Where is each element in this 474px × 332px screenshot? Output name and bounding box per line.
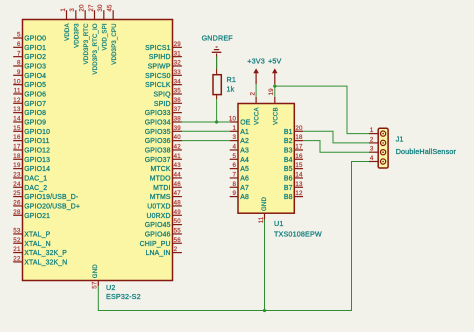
svg-text:XTAL_P: XTAL_P [24, 231, 50, 238]
svg-text:U2: U2 [106, 283, 116, 292]
U2 pin 34 SPICLK [145, 78, 182, 89]
svg-text:15: 15 [295, 162, 303, 169]
U1 pin 7 A6 [230, 172, 249, 183]
svg-text:GPIO9: GPIO9 [24, 119, 46, 126]
U2 pin 31 SPIHD [149, 50, 182, 61]
svg-text:B1: B1 [284, 129, 293, 136]
U1 pin 14 B6 [284, 172, 303, 183]
U2 pin 16 GPIO11 [13, 134, 49, 145]
svg-text:49: 49 [174, 209, 182, 216]
svg-text:26: 26 [13, 200, 21, 207]
svg-text:CHIP_PU: CHIP_PU [140, 241, 171, 248]
U2 pin 18 GPIO13 [13, 153, 50, 164]
svg-text:23: 23 [13, 172, 21, 179]
svg-text:20: 20 [295, 125, 303, 132]
svg-text:VDD3P3_RTC: VDD3P3_RTC [83, 23, 90, 64]
svg-text:27: 27 [88, 4, 95, 12]
U1 pin 16 B4 [284, 153, 303, 164]
svg-text:55: 55 [174, 228, 182, 235]
power symbol +3V3 [253, 68, 259, 84]
J1 pin 3 [369, 146, 386, 155]
svg-text:7: 7 [233, 172, 237, 179]
U1 pin 19 VCCB [268, 88, 279, 125]
U1 pin 13 B7 [284, 181, 303, 192]
svg-text:A7: A7 [240, 185, 249, 192]
U2 pin 44 MTDO [150, 172, 182, 183]
svg-text:52: 52 [13, 237, 21, 244]
svg-text:47: 47 [174, 190, 182, 197]
svg-text:4: 4 [370, 155, 374, 162]
svg-text:A2: A2 [240, 138, 249, 145]
svg-text:45: 45 [107, 4, 114, 12]
svg-text:12: 12 [13, 97, 21, 104]
svg-text:SPIQ: SPIQ [154, 91, 172, 98]
U2 pin 15 GPIO10 [13, 125, 50, 136]
U2 pin 37 GPIO33 [145, 106, 182, 117]
svg-text:18: 18 [13, 153, 21, 160]
svg-text:GPIO4: GPIO4 [24, 73, 46, 80]
svg-text:GPIO7: GPIO7 [24, 101, 46, 108]
svg-text:21: 21 [13, 246, 21, 253]
svg-text:OE: OE [240, 119, 251, 126]
svg-text:DAC_2: DAC_2 [24, 185, 47, 192]
J1 pin 2 [369, 136, 386, 145]
U2 pin 26 GPIO20/USB_D+ [13, 200, 80, 211]
svg-text:14: 14 [13, 116, 21, 123]
U2 pin 10 GPIO5 [13, 78, 46, 89]
svg-text:19: 19 [268, 88, 275, 96]
U2 pin 50 GPIO45 [145, 218, 182, 229]
svg-text:16: 16 [295, 153, 303, 160]
svg-text:GPIO10: GPIO10 [24, 129, 50, 136]
svg-text:17: 17 [13, 144, 21, 151]
svg-text:35: 35 [174, 88, 182, 95]
U1 pin 1 A1 [230, 125, 249, 136]
U1 pin 17 B3 [284, 144, 303, 155]
svg-text:GPIO2: GPIO2 [24, 54, 46, 61]
wire U2 GND to ground rail [98, 162, 369, 311]
power symbol GNDREF [212, 47, 222, 52]
junction +5V net [273, 85, 276, 88]
svg-text:GNDREF: GNDREF [202, 33, 234, 42]
svg-text:4: 4 [233, 144, 237, 151]
svg-text:MTMS: MTMS [150, 194, 171, 201]
svg-text:16: 16 [13, 134, 21, 141]
svg-text:15: 15 [13, 125, 21, 132]
svg-text:9: 9 [233, 190, 237, 197]
svg-text:29: 29 [174, 41, 182, 48]
svg-text:+5V: +5V [268, 56, 281, 65]
U1 pin 5 A4 [230, 153, 249, 164]
U2 pin 14 GPIO9 [13, 116, 46, 127]
svg-text:GPIO37: GPIO37 [145, 157, 171, 164]
svg-text:42: 42 [174, 144, 182, 151]
svg-text:MTCK: MTCK [150, 166, 170, 173]
U2 pin 43 MTCK [150, 162, 181, 173]
svg-text:8: 8 [17, 60, 21, 67]
svg-text:VDDA: VDDA [64, 23, 71, 41]
svg-text:2: 2 [250, 92, 257, 96]
U2 pin 7 GPIO2 [13, 50, 46, 61]
svg-text:GPIO6: GPIO6 [24, 91, 46, 98]
U2 pin 20 VDD3P3_RTC [79, 4, 90, 64]
svg-text:43: 43 [174, 162, 182, 169]
svg-text:A8: A8 [240, 194, 249, 201]
svg-text:GPIO11: GPIO11 [24, 138, 49, 145]
U2 pin 30 VDD_SPI [97, 4, 108, 50]
U1 pin 8 A7 [230, 181, 249, 192]
svg-text:12: 12 [295, 190, 303, 197]
U2 pin 36 SPID [154, 97, 182, 108]
svg-text:6: 6 [17, 41, 21, 48]
U2 pin 2 LNA_IN [146, 246, 182, 257]
wire B1 to J1 pin 2 [303, 131, 369, 143]
svg-text:41: 41 [174, 153, 182, 160]
svg-text:24: 24 [13, 181, 21, 188]
U2 pin 12 GPIO7 [13, 97, 46, 108]
svg-text:GND: GND [261, 197, 268, 211]
U2 pin 11 GPIO6 [13, 88, 46, 99]
U2 pin 3 VDD3P3 [69, 8, 80, 48]
svg-text:13: 13 [295, 181, 303, 188]
svg-text:13: 13 [13, 106, 21, 113]
wire +5V to J1 pin 1 [275, 86, 369, 134]
U1 pin 4 A3 [230, 144, 249, 155]
svg-text:XTAL_32K_P: XTAL_32K_P [24, 250, 67, 257]
svg-text:B2: B2 [284, 138, 293, 145]
U2 pin 27 VDD3P3_RTC_IO [88, 4, 99, 75]
svg-text:GPIO33: GPIO33 [145, 110, 171, 117]
U2 pin 52 XTAL_N [13, 237, 51, 248]
U2 pin 45 VDD3P3_CPU [107, 4, 118, 65]
svg-text:GPIO1: GPIO1 [24, 45, 46, 52]
U2 pin 32 SPIWP [148, 60, 182, 71]
svg-text:37: 37 [174, 106, 182, 113]
power symbol +5V [272, 68, 278, 84]
U2 pin 42 GPIO38 [145, 144, 182, 155]
svg-text:8: 8 [233, 181, 237, 188]
U1 pin 18 B2 [284, 134, 303, 145]
U1 pin 2 VCCA [250, 92, 261, 125]
connector J1 DoubleHallSensor [378, 128, 388, 168]
svg-text:VDD3P3: VDD3P3 [73, 23, 80, 48]
svg-text:GPIO36: GPIO36 [145, 138, 171, 145]
U2 pin 5 GPIO0 [13, 32, 46, 43]
U2 pin 22 XTAL_32K_N [13, 256, 67, 267]
U2 pin 48 U0TXD [147, 200, 182, 211]
IC U2 ESP32-S2 [23, 20, 173, 281]
svg-text:3: 3 [370, 146, 374, 153]
wire GPIO34 to OE [182, 121, 230, 123]
U2 pin 1 VDDA [60, 8, 71, 41]
svg-text:GPIO12: GPIO12 [24, 147, 50, 154]
U2 pin 28 GPIO21 [13, 209, 50, 220]
J1 pin 1 [369, 127, 386, 136]
svg-text:A1: A1 [240, 129, 249, 136]
svg-text:XTAL_32K_N: XTAL_32K_N [24, 259, 67, 266]
svg-text:GPIO8: GPIO8 [24, 110, 46, 117]
wire U1 GND to ground rail [264, 220, 266, 311]
wire GPIO35 to A1 [182, 130, 230, 132]
svg-text:ESP32-S2: ESP32-S2 [106, 292, 141, 301]
svg-text:XTAL_N: XTAL_N [24, 241, 50, 248]
svg-text:VCCB: VCCB [272, 107, 279, 125]
U2 pin 9 GPIO4 [13, 69, 46, 80]
svg-text:10: 10 [13, 78, 21, 85]
resistor R1 [213, 54, 221, 100]
svg-text:31: 31 [174, 50, 182, 57]
svg-text:A3: A3 [240, 147, 249, 154]
wire +5V to VCCB [274, 84, 276, 97]
svg-text:B5: B5 [284, 166, 293, 173]
svg-text:B4: B4 [284, 157, 293, 164]
svg-text:B7: B7 [284, 185, 293, 192]
svg-text:7: 7 [17, 50, 21, 57]
svg-text:SPID: SPID [154, 101, 171, 108]
U1 pin 3 A2 [230, 134, 249, 145]
svg-text:U0TXD: U0TXD [147, 203, 170, 210]
U2 pin 35 SPIQ [154, 88, 182, 99]
svg-text:R1: R1 [227, 75, 237, 84]
svg-text:53: 53 [13, 228, 21, 235]
svg-text:3: 3 [233, 134, 237, 141]
svg-text:A4: A4 [240, 157, 249, 164]
svg-text:MTDI: MTDI [153, 185, 170, 192]
wire R1 to OE net [216, 99, 218, 122]
svg-text:48: 48 [174, 200, 182, 207]
svg-text:GPIO35: GPIO35 [145, 129, 171, 136]
U2 pin 40 GPIO36 [145, 134, 182, 145]
svg-text:VDD3P3_RTC_IO: VDD3P3_RTC_IO [92, 23, 99, 74]
svg-text:B3: B3 [284, 147, 293, 154]
U2 pin 6 GPIO1 [13, 41, 46, 52]
svg-text:VCCA: VCCA [254, 107, 261, 125]
U2 pin 19 GPIO14 [13, 162, 50, 173]
svg-text:6: 6 [233, 162, 237, 169]
svg-text:SPIWP: SPIWP [148, 63, 171, 70]
svg-text:SPIHD: SPIHD [149, 54, 171, 61]
svg-text:20: 20 [79, 4, 86, 12]
svg-text:GND: GND [92, 264, 99, 278]
svg-text:MTDO: MTDO [150, 175, 171, 182]
svg-text:1: 1 [233, 125, 237, 132]
svg-text:A5: A5 [240, 166, 249, 173]
svg-text:LNA_IN: LNA_IN [146, 250, 171, 257]
svg-text:GPIO19/USB_D-: GPIO19/USB_D- [24, 194, 78, 201]
U2 pin 21 XTAL_32K_P [13, 246, 67, 257]
svg-text:10: 10 [229, 116, 237, 123]
wire B2 to J1 pin 3 [303, 141, 369, 153]
svg-text:56: 56 [174, 237, 182, 244]
svg-text:5: 5 [17, 32, 21, 39]
svg-text:28: 28 [13, 209, 21, 216]
svg-text:1: 1 [60, 8, 67, 12]
svg-text:9: 9 [17, 69, 21, 76]
svg-text:36: 36 [174, 97, 182, 104]
svg-text:B8: B8 [284, 194, 293, 201]
svg-text:SPICLK: SPICLK [145, 82, 171, 89]
U1 pin 10 OE [229, 116, 251, 127]
U2 pin 29 SPICS1 [145, 41, 182, 52]
svg-text:DAC_1: DAC_1 [24, 175, 47, 182]
U2 pin 17 GPIO12 [13, 144, 50, 155]
svg-text:VDD_SPI: VDD_SPI [101, 23, 108, 50]
svg-text:TXS0108EPW: TXS0108EPW [274, 230, 322, 239]
svg-text:33: 33 [174, 69, 182, 76]
svg-text:25: 25 [13, 190, 21, 197]
U2 pin 46 MTDI [153, 181, 182, 192]
svg-text:34: 34 [174, 78, 182, 85]
junction ground rail [263, 309, 266, 312]
svg-text:GPIO38: GPIO38 [145, 147, 171, 154]
U2 pin 53 XTAL_P [13, 228, 50, 239]
U1 pin 20 B1 [284, 125, 303, 136]
U2 pin 38 GPIO34 [145, 116, 182, 127]
U2 pin 41 GPIO37 [145, 153, 182, 164]
U2 pin 56 CHIP_PU [140, 237, 182, 248]
U1 pin 12 B8 [284, 190, 303, 201]
svg-text:SPICS0: SPICS0 [145, 73, 170, 80]
svg-text:46: 46 [174, 181, 182, 188]
U2 pin 24 DAC_2 [13, 181, 47, 192]
svg-text:GPIO45: GPIO45 [145, 222, 171, 229]
svg-text:22: 22 [13, 256, 21, 263]
U2 pin 33 SPICS0 [145, 69, 182, 80]
svg-text:50: 50 [174, 218, 182, 225]
U2 pin 55 GPIO46 [145, 228, 182, 239]
svg-text:GPIO46: GPIO46 [145, 231, 171, 238]
svg-text:1: 1 [370, 127, 374, 134]
svg-text:57: 57 [92, 281, 99, 289]
U2 pin 13 GPIO8 [13, 106, 46, 117]
svg-text:GPIO34: GPIO34 [145, 119, 171, 126]
svg-text:38: 38 [174, 116, 182, 123]
svg-text:VDD3P3_CPU: VDD3P3_CPU [111, 23, 118, 64]
U2 pin 8 GPIO3 [13, 60, 46, 71]
svg-text:39: 39 [174, 125, 182, 132]
wire +3V3 to VCCA [255, 84, 257, 97]
U2 pin 49 U0RXD [146, 209, 181, 220]
IC U1 TXS0108EPW [238, 104, 294, 214]
svg-text:19: 19 [13, 162, 21, 169]
wire GPIO36 to A2 [182, 140, 230, 142]
svg-text:30: 30 [97, 4, 104, 12]
wire GNDREF to R1 [216, 57, 218, 70]
svg-text:GPIO3: GPIO3 [24, 63, 46, 70]
J1 pin 4 [369, 155, 386, 164]
svg-text:3: 3 [69, 8, 76, 12]
svg-text:GPIO0: GPIO0 [24, 36, 46, 43]
svg-text:18: 18 [295, 134, 303, 141]
svg-text:GPIO5: GPIO5 [24, 82, 46, 89]
U2 pin 25 GPIO19/USB_D- [13, 190, 78, 201]
svg-text:11: 11 [258, 216, 265, 223]
U1 pin 6 A5 [230, 162, 249, 173]
svg-text:11: 11 [14, 88, 21, 95]
svg-text:32: 32 [174, 60, 182, 67]
svg-text:A6: A6 [240, 175, 249, 182]
svg-text:44: 44 [174, 172, 182, 179]
svg-text:1k: 1k [227, 84, 235, 93]
svg-text:+3V3: +3V3 [247, 56, 265, 65]
svg-text:2: 2 [370, 136, 374, 143]
U1 pin 15 B5 [284, 162, 303, 173]
svg-text:GPIO13: GPIO13 [24, 157, 50, 164]
svg-text:40: 40 [174, 134, 182, 141]
svg-text:DoubleHallSensor: DoubleHallSensor [396, 147, 457, 156]
svg-text:17: 17 [295, 144, 303, 151]
U2 pin 23 DAC_1 [13, 172, 47, 183]
svg-text:SPICS1: SPICS1 [145, 45, 170, 52]
svg-text:14: 14 [295, 172, 303, 179]
U2 pin 47 MTMS [150, 190, 182, 201]
svg-text:GPIO14: GPIO14 [24, 166, 50, 173]
svg-text:GPIO20/USB_D+: GPIO20/USB_D+ [24, 203, 80, 210]
svg-text:5: 5 [233, 153, 237, 160]
svg-text:GPIO21: GPIO21 [24, 213, 50, 220]
junction R1/OE net [215, 120, 218, 123]
svg-text:U0RXD: U0RXD [146, 213, 170, 220]
svg-text:J1: J1 [396, 135, 404, 144]
svg-text:B6: B6 [284, 175, 293, 182]
U2 pin 39 GPIO35 [145, 125, 182, 136]
U2 pin 57 GND [92, 264, 100, 289]
svg-text:U1: U1 [274, 219, 284, 228]
U1 pin 11 GND [258, 197, 268, 224]
U1 pin 9 A8 [230, 190, 249, 201]
svg-text:2: 2 [174, 246, 178, 253]
